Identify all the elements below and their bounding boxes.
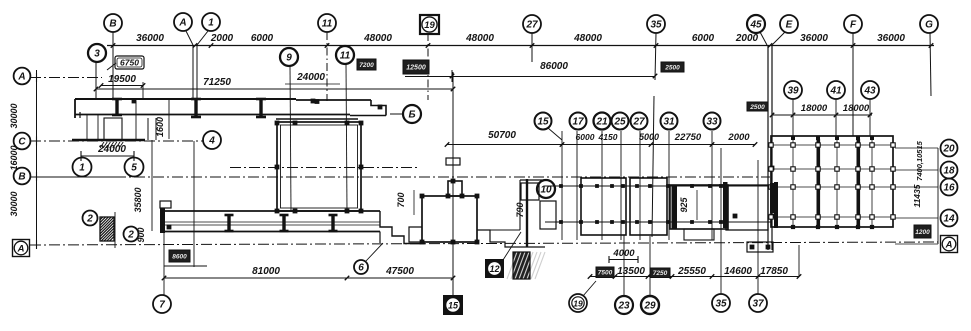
strip right steps <box>380 211 425 244</box>
svg-text:18: 18 <box>943 166 955 177</box>
axis circle 14 <box>941 210 958 227</box>
dim line 50700 + cluster <box>447 144 755 146</box>
svg-text:24000: 24000 <box>296 72 325 83</box>
svg-text:8600: 8600 <box>172 253 187 260</box>
leader 16 <box>548 128 562 140</box>
thick bar middle cluster <box>672 185 678 229</box>
line 1600 axis <box>168 99 170 139</box>
svg-text:900: 900 <box>136 227 146 242</box>
svg-text:25550: 25550 <box>677 266 706 277</box>
axis B vertical <box>112 32 114 99</box>
axis circle 23 <box>615 296 633 314</box>
svg-text:13500: 13500 <box>617 266 645 277</box>
svg-text:14: 14 <box>943 214 955 225</box>
vertical axis at 194 <box>193 141 195 267</box>
big middle rectangle building <box>277 122 361 211</box>
svg-text:1200: 1200 <box>915 229 930 236</box>
step building right of cross <box>520 179 545 181</box>
axis circle 11 <box>318 14 336 32</box>
svg-text:29: 29 <box>643 301 656 312</box>
axis circle 37 <box>749 294 767 312</box>
svg-text:11: 11 <box>340 51 351 62</box>
svg-text:6750: 6750 <box>120 58 139 68</box>
axis circle 29 <box>641 296 659 314</box>
svg-text:43: 43 <box>863 86 876 97</box>
svg-text:19: 19 <box>573 299 583 309</box>
dim line 71250 <box>96 88 453 90</box>
axis circle В <box>14 168 31 185</box>
svg-text:В: В <box>109 19 116 30</box>
strip I-columns <box>225 215 234 231</box>
svg-text:39: 39 <box>787 86 799 97</box>
building block left of E axis <box>726 185 768 230</box>
svg-text:7250: 7250 <box>653 270 668 277</box>
lower strip building <box>160 201 171 208</box>
svg-text:15: 15 <box>448 301 459 311</box>
dark box 12500 <box>403 60 429 74</box>
svg-text:F: F <box>850 20 857 31</box>
svg-text:7400,10515: 7400,10515 <box>915 140 924 180</box>
axis circle 1 <box>73 158 92 177</box>
svg-text:7200: 7200 <box>359 62 374 69</box>
svg-text:7500: 7500 <box>598 270 613 277</box>
axis circle А <box>14 68 31 85</box>
axis circle 45 <box>747 15 765 33</box>
axis 35 vertical lower <box>652 96 654 237</box>
svg-text:17850: 17850 <box>760 266 788 277</box>
svg-text:86000: 86000 <box>540 61 568 72</box>
small room left of cluster <box>521 183 539 200</box>
I-beam columns left strip <box>112 99 122 115</box>
axis circle G <box>920 15 938 33</box>
svg-text:925: 925 <box>679 197 689 213</box>
axis 11 mid vertical <box>346 64 347 211</box>
dark box 1200 right <box>914 225 931 238</box>
dark box 2500 right <box>747 102 768 111</box>
axis circle 17 <box>570 113 587 130</box>
dark box 2500 mid <box>661 62 684 72</box>
dark box 7200 <box>357 59 376 70</box>
dark box bottom b <box>650 268 670 278</box>
vertical from building to strip <box>151 140 153 231</box>
axis circle 19 bottom (double ring) <box>569 294 587 312</box>
svg-text:48000: 48000 <box>465 33 494 44</box>
left building bottom thick edge <box>72 139 145 141</box>
middle cluster outline <box>581 178 626 235</box>
svg-text:А: А <box>945 239 953 250</box>
hatch box tall bottom <box>507 252 545 279</box>
svg-text:36000: 36000 <box>136 33 164 44</box>
cluster vertical axis lines <box>561 131 563 240</box>
axis E double line a <box>767 45 769 250</box>
svg-text:16000: 16000 <box>9 145 19 170</box>
cluster row line lower <box>545 221 772 223</box>
svg-text:14600: 14600 <box>724 266 752 277</box>
axis 19 vertical <box>427 33 429 100</box>
svg-text:6000: 6000 <box>251 33 274 44</box>
axis 29 lower <box>649 236 651 296</box>
svg-text:4000: 4000 <box>612 248 635 259</box>
svg-text:2500: 2500 <box>664 64 680 71</box>
svg-text:6000: 6000 <box>692 33 715 44</box>
chain line mid 167 <box>230 167 420 169</box>
circle 6 leader <box>354 260 368 274</box>
left building rooms <box>86 114 88 140</box>
svg-text:2: 2 <box>127 230 134 241</box>
svg-text:2500: 2500 <box>749 104 765 111</box>
svg-text:47500: 47500 <box>385 266 414 277</box>
svg-text:71250: 71250 <box>203 77 231 88</box>
dim line 86000 <box>405 76 655 78</box>
axis 3 stub <box>95 61 97 99</box>
svg-text:Е: Е <box>786 20 793 31</box>
svg-text:12500: 12500 <box>406 65 426 72</box>
svg-text:6: 6 <box>358 263 364 274</box>
svg-text:50700: 50700 <box>488 130 516 141</box>
hatch box near circle 2 <box>100 217 114 241</box>
axis circle F <box>844 15 862 33</box>
square 12 dark <box>485 259 504 278</box>
small block below E axis <box>747 242 773 252</box>
svg-text:12: 12 <box>489 264 499 274</box>
svg-text:37: 37 <box>752 299 764 310</box>
axis circle 15 <box>535 113 552 130</box>
right end vertical <box>798 245 800 277</box>
bottom middle dim line <box>590 276 799 278</box>
svg-text:5: 5 <box>131 163 137 174</box>
axis circle 1 <box>202 13 220 31</box>
axis circle Е <box>780 15 798 33</box>
left vertical dim line <box>36 70 38 248</box>
chain line axis B full width <box>115 176 770 178</box>
svg-text:4150: 4150 <box>598 132 618 142</box>
leader E <box>772 32 785 45</box>
axis circle А <box>174 13 192 31</box>
svg-text:25: 25 <box>613 117 626 128</box>
svg-text:24000: 24000 <box>97 144 126 155</box>
svg-text:1600: 1600 <box>155 117 165 137</box>
svg-text:36000: 36000 <box>877 33 905 44</box>
boxed label 6750 <box>107 56 144 70</box>
svg-text:7: 7 <box>159 300 165 311</box>
square 15 dark <box>443 295 463 315</box>
axis circle 39 <box>784 81 802 99</box>
svg-text:G: G <box>925 20 933 31</box>
axis 37 vertical <box>757 160 759 294</box>
svg-text:19500: 19500 <box>108 74 136 85</box>
dark label box near 7 <box>169 250 190 262</box>
collar on vertical 453 <box>446 158 460 165</box>
axis circle 35 <box>647 15 665 33</box>
svg-text:48000: 48000 <box>573 33 602 44</box>
svg-text:3: 3 <box>94 49 100 60</box>
axis 35 lower vertical <box>720 148 722 294</box>
axis circle 3 <box>88 44 106 62</box>
svg-text:А: А <box>178 18 186 29</box>
svg-text:18000: 18000 <box>843 103 870 114</box>
axis B line solid part <box>30 176 115 178</box>
svg-text:19: 19 <box>424 20 435 31</box>
svg-text:2000: 2000 <box>727 132 750 143</box>
axis circle 11 <box>336 46 354 64</box>
leader 19 bottom <box>583 281 596 296</box>
axis circle 43 <box>861 81 879 99</box>
svg-text:36000: 36000 <box>800 33 828 44</box>
axis 27 stub <box>531 33 533 62</box>
svg-text:31: 31 <box>663 117 675 128</box>
axis 9 vertical <box>290 66 291 211</box>
dark scan line under strip <box>276 118 358 120</box>
leader 1 <box>197 31 208 45</box>
axis circle 25 <box>612 113 629 130</box>
axis circle 20 <box>941 140 958 157</box>
svg-text:2000: 2000 <box>210 33 234 44</box>
dark box bottom a <box>596 267 614 278</box>
svg-text:16: 16 <box>943 183 955 194</box>
svg-text:2: 2 <box>86 214 93 225</box>
svg-text:700: 700 <box>396 192 406 207</box>
axis circle 33 <box>704 113 721 130</box>
axis circle 5 <box>125 158 144 177</box>
svg-text:15: 15 <box>537 117 549 128</box>
right grid column marks <box>769 143 773 147</box>
hatching under left building <box>100 142 104 148</box>
svg-text:А: А <box>17 243 25 254</box>
axis 35 vertical upper <box>655 33 656 80</box>
axis circle 4 <box>203 131 221 149</box>
leader A <box>186 31 193 45</box>
axis 23 lower <box>623 235 625 296</box>
svg-text:11: 11 <box>322 19 333 30</box>
svg-text:790: 790 <box>515 202 525 217</box>
axis circle 2 <box>83 211 98 226</box>
left building outline <box>75 98 296 100</box>
svg-text:21: 21 <box>595 117 608 128</box>
svg-text:17: 17 <box>572 117 584 128</box>
axis circle В <box>104 14 122 32</box>
axis circle 7 <box>153 295 171 313</box>
dim line 81000-47500 <box>164 277 453 279</box>
axis circle 9 <box>280 48 298 66</box>
axis circle 31 <box>661 113 678 130</box>
axis square A right <box>941 236 958 253</box>
svg-text:2000: 2000 <box>735 33 759 44</box>
leader 45 <box>760 32 767 45</box>
chain line axis A upper-left <box>30 77 102 79</box>
axis circle 21 <box>594 113 611 130</box>
svg-text:35: 35 <box>650 20 662 31</box>
svg-text:В: В <box>18 172 25 183</box>
svg-text:1: 1 <box>208 18 214 29</box>
top dimension line <box>107 45 934 47</box>
svg-text:9: 9 <box>286 53 292 64</box>
chain line axis A bottom <box>30 242 938 245</box>
svg-text:30000: 30000 <box>9 191 19 216</box>
svg-text:22750: 22750 <box>674 132 702 143</box>
axis circle 27 <box>631 113 648 130</box>
svg-text:11435: 11435 <box>912 184 922 207</box>
svg-text:6000: 6000 <box>576 132 595 142</box>
svg-text:5000: 5000 <box>639 132 659 142</box>
svg-text:С: С <box>18 137 26 148</box>
svg-text:81000: 81000 <box>252 266 280 277</box>
axis circle 18 <box>941 162 958 179</box>
svg-text:4: 4 <box>208 136 215 147</box>
svg-text:18000: 18000 <box>801 103 828 114</box>
right connector vertical <box>937 148 939 244</box>
axis E double line b <box>771 45 773 250</box>
circle B mid <box>403 105 421 123</box>
axis 19-lower long vertical <box>452 72 454 295</box>
svg-text:Б: Б <box>408 110 415 121</box>
axis circle 27 <box>523 15 541 33</box>
svg-text:27: 27 <box>525 20 538 31</box>
axis square А <box>13 240 30 257</box>
svg-text:30000: 30000 <box>9 103 19 128</box>
svg-text:45: 45 <box>749 20 762 31</box>
axis 11 vertical <box>326 32 328 101</box>
svg-text:48000: 48000 <box>363 33 392 44</box>
axis 7 vertical <box>163 231 165 295</box>
svg-text:23: 23 <box>617 301 630 312</box>
axis square 19 <box>420 15 439 34</box>
axis circle С <box>14 133 31 150</box>
axis circle 41 <box>827 81 845 99</box>
svg-text:35: 35 <box>715 299 727 310</box>
svg-text:33: 33 <box>706 117 718 128</box>
center cross building <box>448 181 462 196</box>
axis F vertical <box>852 33 854 136</box>
cluster row line upper <box>545 185 772 187</box>
circle 10 bold <box>537 180 555 198</box>
svg-text:27: 27 <box>632 117 645 128</box>
right building grid <box>771 136 893 227</box>
svg-text:1: 1 <box>79 163 85 174</box>
chain line axis C <box>30 140 203 142</box>
axis circle 16 <box>941 179 958 196</box>
axis circle 35 <box>712 294 730 312</box>
svg-text:41: 41 <box>829 86 842 97</box>
axis circle 2 <box>124 227 139 242</box>
axis G vertical <box>930 33 931 96</box>
svg-text:20: 20 <box>942 144 955 155</box>
svg-text:35800: 35800 <box>133 187 143 212</box>
svg-text:А: А <box>17 72 25 83</box>
